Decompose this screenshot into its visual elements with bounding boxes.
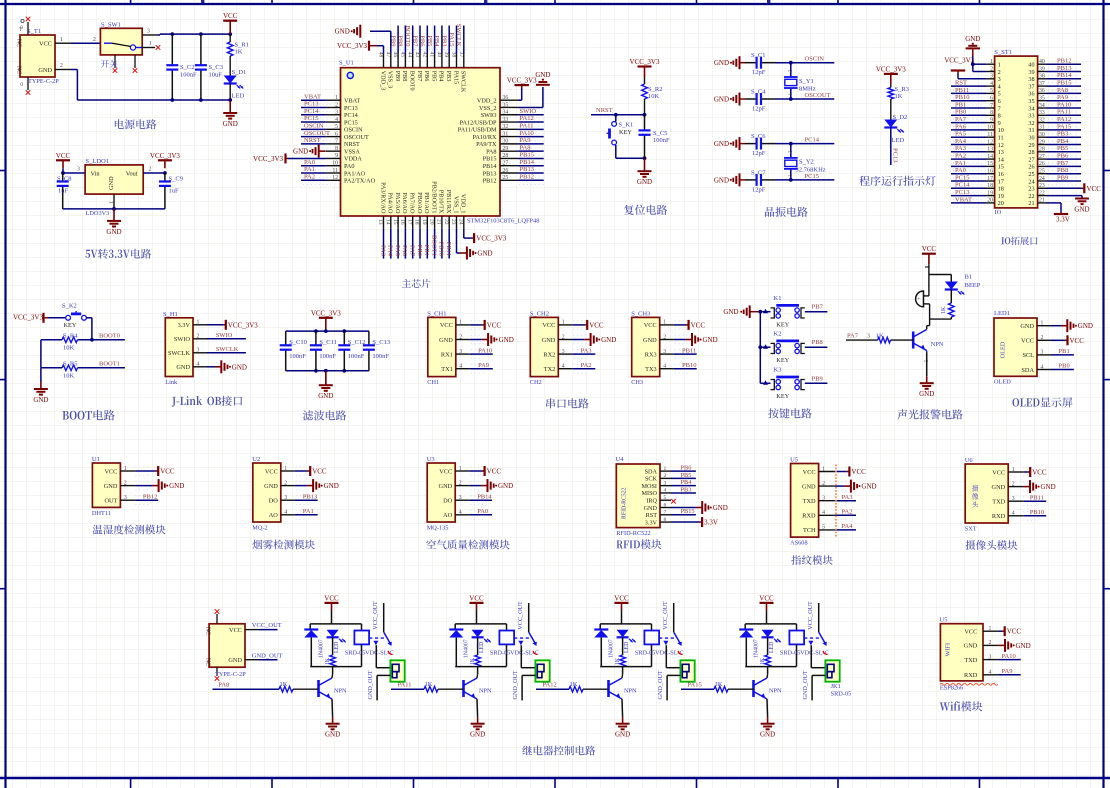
svg-text:PA8: PA8 [1057, 87, 1068, 94]
relay 3 bottom rail [600, 667, 651, 675]
svg-text:VCC_3V3: VCC_3V3 [150, 152, 180, 160]
power VCC (relay 3) [614, 594, 629, 610]
ST1 pin 25 net PB8 [1038, 167, 1081, 178]
svg-text:GND_OUT: GND_OUT [802, 670, 809, 699]
resistor 1K (beep) [930, 303, 955, 326]
svg-text:STM32F103C8T6_LQFP48: STM32F103C8T6_LQFP48 [467, 218, 539, 225]
svg-text:VCC: VCC [644, 322, 657, 329]
relay 1 top rail [310, 611, 361, 631]
svg-text:S_R4: S_R4 [63, 332, 78, 339]
svg-text:PA0: PA0 [955, 167, 966, 174]
pin 33 PA12/USB/DP net label [460, 115, 545, 126]
pin 32 PA11/USB/DM net label [458, 123, 545, 134]
svg-text:VCC: VCC [851, 468, 866, 476]
capacitor C2 [166, 34, 197, 100]
svg-text:NPN: NPN [931, 341, 944, 348]
svg-text:VCC: VCC [589, 321, 604, 329]
svg-text:3.3V: 3.3V [1056, 216, 1070, 224]
power VCC (relay 4) [759, 594, 774, 610]
svg-text:100nF: 100nF [319, 353, 336, 360]
WIFI pin1 VCC [964, 626, 1021, 636]
svg-text:GND: GND [1074, 206, 1089, 214]
svg-text:27: 27 [1028, 156, 1034, 163]
terminal block (relay 3) [680, 660, 694, 681]
S_CH1 pin2 GND [439, 333, 514, 346]
svg-text:S_C12: S_C12 [348, 339, 366, 346]
U6 pin2 GND [992, 480, 1056, 493]
svg-text:PB6: PB6 [1057, 153, 1069, 160]
svg-text:PA8: PA8 [218, 682, 229, 689]
svg-text:PB14: PB14 [520, 159, 535, 166]
svg-text:KEY: KEY [619, 129, 632, 136]
relay 2 bottom rail [455, 667, 506, 675]
WIFI pin4 RXD [964, 668, 1021, 679]
U5 pin3 TXD [803, 494, 856, 505]
relay 1 bottom rail [310, 667, 361, 675]
svg-text:K2: K2 [774, 331, 782, 338]
pin 25 PB12 net label [483, 173, 545, 184]
caption 5V转3.3V电路 [85, 249, 151, 259]
svg-text:VCC_OUT: VCC_OUT [372, 601, 379, 630]
svg-text:GND: GND [535, 71, 550, 79]
svg-text:100nF: 100nF [180, 72, 197, 79]
svg-text:PB3: PB3 [681, 486, 692, 493]
svg-text:S_R5: S_R5 [63, 360, 77, 367]
ST1 pin 18 net PC14 [951, 182, 1045, 193]
svg-text:1: 1 [60, 37, 63, 43]
svg-text:PB4: PB4 [438, 71, 445, 82]
module U5 WIFI ESP8266 body [940, 616, 998, 691]
svg-text:CH3: CH3 [631, 379, 643, 386]
pin 34 SWIO net label [481, 108, 545, 119]
svg-text:2: 2 [60, 63, 63, 69]
svg-text:PA15: PA15 [452, 71, 459, 85]
svg-text:GND_OUT: GND_OUT [252, 652, 283, 659]
svg-text:16: 16 [399, 219, 405, 225]
svg-text:GND: GND [499, 336, 514, 344]
svg-text:35: 35 [1028, 98, 1034, 105]
svg-text:AO: AO [269, 512, 279, 519]
pin 38 PA15 net label [448, 26, 461, 85]
svg-text:1N4007: 1N4007 [754, 639, 760, 658]
svg-text:S_C4: S_C4 [751, 89, 766, 96]
svg-text:22: 22 [1028, 193, 1034, 200]
svg-text:VCC: VCC [691, 321, 706, 329]
regulator LDO1 [85, 158, 143, 217]
svg-text:SRD-05VDC-SL-C: SRD-05VDC-SL-C [780, 650, 829, 657]
svg-text:Vout: Vout [126, 171, 138, 178]
svg-text:DO: DO [269, 498, 279, 505]
svg-text:SWIO: SWIO [481, 112, 497, 119]
capacitor S_C1 with net OSCIN [714, 52, 834, 76]
svg-text:PB5: PB5 [430, 71, 437, 82]
U4 pin3 MOSI [642, 479, 696, 490]
U4 pin5 IRQ [646, 495, 675, 505]
wire NRST node [591, 107, 646, 117]
svg-text:PA10: PA10 [478, 347, 492, 354]
svg-text:TX2: TX2 [544, 366, 556, 373]
svg-text:10uF: 10uF [209, 72, 223, 79]
svg-text:S_D1: S_D1 [232, 69, 247, 76]
svg-text:1: 1 [998, 62, 1001, 69]
wire LDO gnd rail [63, 194, 165, 211]
relay switch (relay 3) [659, 601, 682, 654]
ST1 pin 14 net PA2 [951, 153, 1045, 164]
svg-text:PB10/TX: PB10/TX [438, 190, 445, 214]
svg-text:1K: 1K [615, 657, 621, 665]
svg-text:PA10/RX: PA10/RX [473, 134, 497, 141]
svg-text:VCC_3V3: VCC_3V3 [311, 309, 341, 317]
pin 18 PB0/AO net label [414, 192, 423, 258]
svg-text:U1: U1 [92, 456, 100, 463]
S_CH2 pin3 RX2 [543, 347, 595, 358]
diode 1N4007 (relay 4) [739, 630, 759, 667]
ST1 pin 7 net PB1 [951, 101, 1045, 112]
svg-text:TXD: TXD [964, 657, 977, 664]
svg-text:PA0: PA0 [304, 159, 315, 166]
wire GND_OUT (relay 3) [657, 670, 681, 700]
pin 22 PB11/RX net label [443, 190, 452, 259]
svg-text:IRQ: IRQ [646, 498, 657, 505]
svg-text:NC: NC [16, 66, 22, 74]
module U4 RFID-RC522 body [616, 456, 661, 537]
svg-text:VBAT: VBAT [344, 98, 360, 105]
svg-text:PB3: PB3 [441, 35, 448, 46]
connector TYPE-C-2P (relay power) [205, 609, 247, 681]
capacitor C8 [57, 173, 72, 209]
svg-text:14: 14 [998, 156, 1004, 163]
svg-text:S_C2: S_C2 [180, 64, 194, 71]
svg-text:GND: GND [760, 731, 775, 739]
svg-text:U4: U4 [616, 456, 625, 463]
relay coil (relay 1) [345, 631, 394, 667]
svg-text:24: 24 [1028, 178, 1034, 185]
svg-text:VCC: VCC [160, 468, 175, 476]
capacitor S_C6 with net PC14 [714, 133, 834, 157]
svg-text:PC13: PC13 [955, 189, 969, 196]
caption 程序运行指示灯 [859, 176, 935, 186]
svg-text:PA4: PA4 [387, 245, 394, 257]
svg-text:PB7: PB7 [812, 304, 824, 311]
ST1 pin 40 net PB12 [1038, 58, 1081, 69]
svg-text:1K: 1K [760, 657, 766, 665]
svg-text:U6: U6 [965, 457, 974, 464]
power VCC_3V3 (boot) [13, 313, 48, 323]
svg-text:NRST: NRST [596, 107, 613, 114]
ST1 pin 8 net PB0 [951, 109, 1045, 120]
svg-text:TCH: TCH [803, 527, 816, 534]
svg-text:PA6: PA6 [955, 123, 967, 130]
svg-text:3: 3 [998, 76, 1001, 83]
svg-text:12pF: 12pF [752, 106, 766, 113]
wire switch to terminal (relay 3) [666, 645, 680, 668]
caption 串口电路 [546, 398, 589, 408]
svg-text:GND: GND [33, 396, 48, 404]
ST1 pin 13 net PA3 [951, 145, 1045, 156]
svg-text:OLED: OLED [994, 379, 1011, 386]
svg-text:PA3: PA3 [581, 347, 592, 354]
svg-text:10: 10 [998, 127, 1004, 134]
svg-text:NRST: NRST [304, 137, 321, 144]
svg-text:2: 2 [998, 69, 1001, 76]
svg-text:PB13: PB13 [483, 170, 497, 177]
wire GND_OUT (relay 4) [802, 670, 826, 700]
svg-text:22: 22 [443, 219, 449, 225]
svg-text:RXD: RXD [964, 672, 978, 679]
svg-text:GND: GND [601, 336, 616, 344]
svg-text:SCL: SCL [1022, 352, 1034, 359]
H1 pin2 net SWIO [174, 332, 246, 343]
svg-text:RX1: RX1 [441, 351, 453, 358]
svg-text:GND: GND [703, 336, 718, 344]
svg-text:S_C1: S_C1 [751, 52, 765, 59]
svg-text:TYPE-C-2P: TYPE-C-2P [215, 671, 246, 678]
S_CH1 pin1 VCC [440, 320, 502, 330]
svg-text:100nF: 100nF [372, 353, 389, 360]
svg-text:GND: GND [38, 67, 52, 74]
ST1 pin 9 net PA7 [951, 116, 1045, 127]
svg-text:PA4: PA4 [955, 138, 967, 145]
caption 晶振电路 [765, 207, 808, 217]
svg-text:VCC: VCC [964, 629, 977, 636]
key K2 net PB8 [760, 331, 827, 364]
wire GND_OUT (relay 2) [512, 670, 536, 700]
svg-text:PB7: PB7 [416, 71, 423, 82]
svg-text:20: 20 [998, 200, 1004, 207]
svg-text:B1: B1 [965, 274, 973, 281]
svg-text:PA9/TX: PA9/TX [476, 141, 497, 148]
svg-text:VCC: VCC [1021, 338, 1034, 345]
svg-text:VCC_3V3: VCC_3V3 [630, 58, 660, 66]
svg-text:PB13: PB13 [1057, 65, 1071, 72]
svg-text:LED: LED [892, 137, 905, 144]
svg-text:VCC: VCC [803, 469, 816, 476]
svg-text:LDO3V3: LDO3V3 [86, 210, 110, 217]
pin 30 PA9/TX net label [476, 137, 545, 148]
svg-text:GND: GND [1020, 323, 1034, 330]
relay switch (relay 1) [369, 601, 392, 654]
svg-text:VSSA: VSSA [344, 148, 360, 155]
pin 48 VDD_3 to VCC_3V3 [337, 41, 386, 91]
pin 12 PA2/TX/AO with net PA2 [301, 173, 376, 184]
svg-text:SWIO: SWIO [216, 332, 233, 339]
U4 pin8 3.3V [645, 517, 718, 527]
svg-text:SRD-05VDC-SL-C: SRD-05VDC-SL-C [345, 650, 394, 657]
svg-text:LED1: LED1 [994, 310, 1010, 317]
svg-text:PB14: PB14 [483, 163, 497, 170]
svg-text:PA11/USB/DM: PA11/USB/DM [458, 127, 497, 134]
svg-text:PB4: PB4 [1057, 138, 1069, 145]
ST1 pin 37 net PB15 [1038, 80, 1081, 91]
U3 pin2 GND [439, 479, 514, 492]
svg-text:12pF: 12pF [752, 150, 766, 157]
svg-text:PB10: PB10 [955, 94, 969, 101]
svg-text:GND: GND [335, 28, 350, 36]
svg-text:37: 37 [458, 52, 464, 58]
svg-text:PB11: PB11 [1030, 494, 1044, 501]
svg-text:VBAT: VBAT [955, 196, 972, 203]
pin 27 PB14 net label [483, 159, 545, 170]
svg-text:15: 15 [998, 164, 1004, 171]
svg-text:S_C7: S_C7 [751, 169, 766, 176]
svg-text:VSS_1: VSS_1 [452, 196, 459, 214]
capacitor C11 100nF [310, 331, 337, 371]
pin 40 PB4 net label [433, 26, 446, 82]
svg-text:S_C8: S_C8 [57, 176, 71, 183]
svg-text:S_D2: S_D2 [893, 114, 908, 121]
svg-text:PB10: PB10 [1030, 509, 1044, 516]
module S_CH3 body [631, 310, 660, 386]
ST1 pin 15 net PA1 [951, 160, 1045, 171]
svg-text:14: 14 [385, 219, 391, 225]
svg-text:NC: NC [205, 658, 211, 666]
pin 47 VSS_3 to GND [335, 25, 394, 89]
svg-text:GND: GND [232, 363, 247, 371]
svg-text:PB10: PB10 [682, 362, 696, 369]
svg-text:PA12: PA12 [543, 682, 557, 689]
svg-text:33: 33 [1028, 113, 1034, 120]
svg-text:K1: K1 [774, 295, 782, 302]
ST1 pin 20 net VBAT [951, 196, 1045, 207]
svg-text:3: 3 [77, 167, 80, 173]
svg-text:PB3: PB3 [1057, 131, 1068, 138]
svg-text:LED: LED [769, 642, 775, 653]
svg-text:PA8: PA8 [486, 148, 496, 155]
svg-text:1: 1 [149, 41, 152, 47]
relay switch (relay 2) [514, 601, 537, 654]
svg-text:26: 26 [1028, 164, 1034, 171]
svg-text:TXD: TXD [803, 498, 816, 505]
svg-text:1K: 1K [895, 93, 903, 100]
svg-text:GND: GND [106, 228, 121, 236]
wire Vin [61, 167, 85, 175]
pin 42 PB6 net label [419, 26, 432, 82]
svg-text:3: 3 [867, 334, 870, 340]
svg-text:1N4007: 1N4007 [609, 639, 615, 658]
svg-text:SWCLK: SWCLK [455, 24, 462, 47]
svg-text:PB9: PB9 [389, 35, 396, 46]
svg-text:25: 25 [1028, 171, 1034, 178]
svg-text:6: 6 [998, 98, 1001, 105]
resistor 1K (relay 1) [325, 655, 335, 667]
svg-text:TXD: TXD [992, 499, 1005, 506]
svg-text:PC13: PC13 [304, 101, 318, 108]
wire switch to terminal (relay 2) [521, 645, 535, 668]
LED (relay 4) [762, 630, 781, 655]
svg-text:IO: IO [995, 209, 1002, 216]
caption IO拓展口 [1001, 236, 1037, 245]
caption 摄像头模块 [966, 540, 1018, 550]
svg-text:PB3: PB3 [445, 71, 452, 82]
svg-text:PA15: PA15 [448, 32, 455, 46]
caption RFID模块 [616, 539, 661, 549]
svg-text:VCC_3V3: VCC_3V3 [337, 42, 367, 50]
svg-text:42: 42 [421, 52, 427, 58]
svg-text:PA0: PA0 [344, 163, 354, 170]
svg-text:PA11: PA11 [398, 682, 412, 689]
diode D2 LED with net PC13 [884, 114, 907, 165]
svg-text:VCC: VCC [440, 322, 453, 329]
svg-text:VCC: VCC [1032, 469, 1047, 477]
terminal block (relay 4) [825, 660, 839, 681]
caption BOOT电路 [62, 410, 114, 421]
ST1 pin 39 net PB13 [1038, 65, 1081, 76]
svg-text:PB11: PB11 [445, 242, 452, 256]
pin 8 VSSA to GND [293, 145, 360, 158]
connector ST1 IO header body [994, 49, 1037, 216]
S_CH2 pin1 VCC [542, 320, 604, 330]
svg-text:CH2: CH2 [530, 379, 542, 386]
svg-text:2: 2 [149, 167, 152, 173]
svg-text:1: 1 [108, 201, 114, 204]
svg-text:PB4: PB4 [433, 35, 440, 47]
module U1 (DHT11) body [92, 456, 121, 517]
ST1 pin 12 net PA4 [951, 138, 1045, 149]
ST1 pin 11 net PA5 [951, 131, 1045, 142]
svg-text:PA12/USB/DP: PA12/USB/DP [460, 119, 497, 126]
svg-text:10K: 10K [63, 373, 75, 380]
H1 pin4 to GND [176, 360, 247, 373]
IC U1 STM32F103C8T6_LQFP48 body [339, 60, 539, 225]
module U6 (SXT) body [965, 457, 1009, 533]
svg-text:NC: NC [205, 627, 211, 635]
svg-text:S_C3: S_C3 [209, 64, 223, 71]
svg-text:PB5: PB5 [1057, 145, 1068, 152]
svg-text:GND: GND [1016, 642, 1031, 650]
svg-text:S_CH2: S_CH2 [530, 310, 549, 317]
module U5 (AS608) body [790, 457, 819, 547]
diode 1N4007 (relay 3) [594, 630, 614, 667]
svg-text:AO: AO [443, 512, 453, 519]
svg-text:PA3: PA3 [955, 145, 966, 152]
svg-text:37: 37 [1028, 83, 1034, 90]
transistor NPN (relay 2) [464, 674, 493, 717]
wire T1 VCC to SW1 [55, 37, 100, 43]
svg-text:PB5: PB5 [681, 472, 692, 479]
svg-text:BEEP: BEEP [965, 282, 981, 289]
svg-text:17: 17 [998, 178, 1004, 185]
svg-text:8MHz: 8MHz [799, 86, 816, 93]
svg-text:PC14: PC14 [304, 108, 319, 115]
svg-text:10K: 10K [63, 345, 75, 352]
svg-text:NC: NC [16, 39, 22, 47]
svg-text:GND: GND [169, 482, 184, 490]
ST1 pin 6 net PB10 [951, 94, 1045, 105]
U5 pin4 RXD [802, 509, 856, 520]
U4 pin4 MISO [642, 486, 696, 497]
pin 3 PC14 with net PC14 [301, 108, 358, 119]
svg-text:AS608: AS608 [790, 540, 808, 547]
svg-text:RFID-RC522: RFID-RC522 [622, 487, 628, 519]
svg-text:PC15: PC15 [805, 173, 819, 180]
svg-text:44: 44 [407, 52, 413, 58]
wire to gnd (boot) [40, 368, 42, 382]
buzzer B1 [916, 275, 930, 320]
svg-text:PA2: PA2 [304, 173, 315, 180]
resistor R5 10K net BOOT1 [41, 340, 125, 380]
svg-text:S_K1: S_K1 [619, 122, 634, 129]
svg-text:48: 48 [378, 52, 384, 58]
module LED1 OLED body [994, 310, 1037, 386]
svg-text:NRST: NRST [344, 141, 360, 148]
svg-text:GND: GND [723, 308, 738, 316]
svg-text:GND: GND [919, 390, 934, 398]
svg-text:GND: GND [644, 505, 658, 512]
svg-text:8: 8 [998, 113, 1001, 120]
resistor R2 10K [642, 78, 663, 115]
U2 pin1 VCC [265, 466, 327, 476]
ST1 pin 32 net PA12 [1038, 116, 1081, 127]
